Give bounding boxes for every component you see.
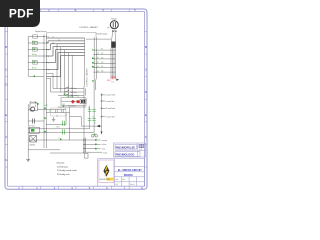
- bundle wire numbers: [52, 37, 60, 45]
- svg-text:B: B: [145, 45, 147, 49]
- handle lamp circle: [110, 20, 118, 32]
- wire rail 4: [28, 139, 84, 141]
- net arrow down: [101, 132, 103, 135]
- label signal lamps: [35, 31, 46, 33]
- schematic wiring: main drawing: [28, 32, 115, 152]
- wire number labels XT2: [101, 49, 104, 73]
- terminal strip XT2: [93, 37, 97, 79]
- wire drop 2: [60, 47, 62, 92]
- label control cabinet: [79, 26, 99, 29]
- wire strip to plug row 4: [96, 62, 115, 64]
- arrow left: [96, 125, 101, 128]
- wire pump feed: [37, 109, 66, 111]
- cabinet outline: [47, 32, 96, 37]
- svg-text:gn: gn: [97, 62, 99, 64]
- terminal numbers right of strip XT1: [48, 37, 49, 72]
- title block main: [98, 159, 145, 187]
- wire lamp row 1: [28, 36, 44, 38]
- green squares ladder: [44, 108, 61, 141]
- svg-text:gy: gy: [97, 70, 99, 72]
- svg-text:1:4: 1:4: [112, 81, 114, 83]
- contact pair K2: [63, 121, 65, 135]
- svg-text:ye: ye: [97, 66, 99, 68]
- wire drop 1: [56, 44, 58, 89]
- frame outer border: [5, 9, 147, 189]
- frame zone ticks: [5, 9, 147, 189]
- svg-text:KM1: KM1: [45, 105, 48, 107]
- svg-text:Handle lamps: Handle lamps: [97, 34, 108, 36]
- green dots left of XT2: [92, 49, 94, 67]
- svg-text:1.2: 1.2: [58, 39, 60, 41]
- wire handle stem: [112, 30, 116, 42]
- pump unit M1: [30, 102, 39, 114]
- wire cabinet row 7: [46, 55, 84, 76]
- svg-text:CONTROL CABINET: CONTROL CABINET: [79, 26, 99, 29]
- wire cabinet vertical bus: [84, 38, 86, 86]
- svg-text:Indicator:: Indicator:: [57, 161, 66, 164]
- svg-text:M1 pump: M1 pump: [30, 102, 37, 104]
- label control cabinet vertical: [86, 67, 89, 87]
- wire rail 3: [28, 132, 94, 134]
- title upper text 1: [116, 146, 136, 149]
- wire branch vertical: [69, 107, 71, 140]
- svg-text:E: E: [6, 113, 8, 117]
- svg-text:230V: 230V: [30, 111, 34, 113]
- wire cabinet row 6: [46, 53, 84, 70]
- wire strip to plug row 2: [96, 54, 115, 56]
- strip XT3 green dots: [95, 139, 97, 149]
- wire lamp row 5: [28, 62, 44, 64]
- title upper text 2: [116, 153, 135, 156]
- connector XP1: [111, 42, 116, 48]
- wire cabinet row 1: [46, 37, 84, 39]
- svg-text:S4: S4: [56, 116, 58, 118]
- wire elbow: [65, 113, 67, 125]
- logo text: [100, 179, 111, 181]
- svg-text:1:4: 1:4: [139, 149, 142, 151]
- svg-text:103: 103: [101, 57, 104, 59]
- bottom terminal strip XT3: [83, 138, 86, 153]
- wire lamp row 4: [28, 55, 44, 57]
- relay contact K4: [88, 119, 96, 121]
- svg-text:T1: T1: [58, 138, 60, 140]
- wire drop 5: [71, 55, 73, 97]
- wire rail 6: [50, 152, 84, 154]
- projection symbols: [115, 144, 143, 150]
- wire handle feed: [86, 38, 111, 40]
- wire ladder verticals: [44, 78, 46, 148]
- svg-text:2) Ready tested mode: 2) Ready tested mode: [57, 169, 78, 172]
- svg-text:C1: C1: [77, 96, 79, 98]
- wire strip to plug row 3: [96, 58, 115, 60]
- relay green labels: [88, 107, 96, 124]
- wire cabinet row 5: [46, 50, 84, 63]
- ground chassis: [52, 117, 55, 122]
- svg-text:PDF: PDF: [9, 7, 34, 21]
- svg-text:C: C: [5, 68, 7, 72]
- switch green dot: [64, 80, 94, 95]
- contact pair K1: [33, 119, 35, 124]
- lower ladder wiring: [28, 78, 96, 158]
- svg-text:wh: wh: [97, 53, 99, 55]
- wire strip to plug row 5: [96, 67, 115, 69]
- transformer T1: [30, 136, 37, 147]
- svg-text:Signal lamps: Signal lamps: [35, 31, 46, 33]
- wire switch rows: [51, 88, 85, 95]
- svg-text:102: 102: [101, 53, 104, 55]
- plug XS1 red: [107, 77, 119, 83]
- frame zone numbers: [5, 8, 147, 190]
- svg-text:3) Ready auto: 3) Ready auto: [57, 173, 70, 176]
- wire cabinet row 3: [46, 44, 84, 50]
- svg-text:3: 3: [48, 50, 49, 52]
- wire rail 1: [46, 112, 69, 114]
- lamp green dots: [34, 42, 35, 77]
- plug box bottom: [85, 153, 89, 158]
- title main text 1: [118, 169, 142, 172]
- wire left feeder vertical: [27, 37, 29, 77]
- label XP: [107, 28, 109, 30]
- wire rail 2: [28, 128, 89, 130]
- net label green dots: [101, 94, 102, 117]
- wire right bus verticals: [84, 86, 85, 153]
- svg-text:101: 101: [101, 49, 104, 51]
- svg-text:SM1500: SM1500: [124, 174, 134, 177]
- relay contacts mid green: [56, 110, 64, 113]
- svg-text:PNEUMOLOGIC: PNEUMOLOGIC: [116, 153, 135, 156]
- svg-text:Chk: Chk: [115, 184, 118, 186]
- wire cabinet row 2: [46, 41, 84, 43]
- net branch ticks: [102, 95, 106, 117]
- wire mid verticals: [101, 93, 103, 134]
- svg-text:XP: XP: [107, 28, 109, 30]
- ground PE: [26, 158, 30, 162]
- lamp row labels: [32, 40, 37, 70]
- wire drop 4: [67, 53, 69, 98]
- logo cell: [99, 160, 114, 183]
- aux row: [58, 105, 86, 107]
- svg-text:Sign: Sign: [122, 179, 125, 181]
- wire left drop: [28, 104, 30, 158]
- wire rail 5: [28, 149, 60, 151]
- wire rail 2b: [46, 124, 66, 126]
- wire drop 3: [64, 50, 66, 96]
- psu box G1: [61, 96, 86, 106]
- title block upper box: [114, 143, 146, 157]
- wire lamp row 6: [28, 69, 44, 71]
- label handle lamps: [97, 34, 108, 36]
- title main text 2: [124, 174, 134, 177]
- svg-text:1.1: 1.1: [52, 37, 54, 39]
- logo flame: [103, 164, 109, 177]
- wire strip to plug row 1: [96, 49, 115, 51]
- green labels ladder: [45, 104, 65, 140]
- svg-text:K3: K3: [88, 107, 90, 109]
- wire lamp row 3: [28, 49, 44, 51]
- svg-text:SMOKETECH: SMOKETECH: [100, 179, 111, 181]
- svg-text:C: C: [145, 68, 147, 72]
- svg-text:2: 2: [48, 43, 49, 45]
- svg-text:D: D: [145, 90, 147, 94]
- svg-text:104: 104: [101, 62, 104, 64]
- svg-text:K5: K5: [94, 122, 96, 124]
- wire elbow branch: [70, 117, 97, 126]
- wire plug verticals: [111, 48, 116, 77]
- switch labels: [71, 87, 78, 97]
- relay contact K3: [88, 110, 96, 112]
- label handle: [111, 19, 117, 21]
- heater box E1: [29, 125, 39, 134]
- svg-text:105: 105: [101, 66, 104, 68]
- svg-text:K4: K4: [93, 116, 95, 118]
- legend text: [57, 161, 78, 176]
- title small cells text: [115, 178, 135, 186]
- svg-text:G1 24Vdc: G1 24Vdc: [67, 96, 74, 98]
- scale text: [139, 149, 142, 151]
- wire L feed 2: [46, 78, 50, 92]
- wire strip XT3 rows: [86, 140, 102, 152]
- sensor green dot: [94, 134, 95, 135]
- wire strip to plug row 6: [96, 71, 115, 73]
- svg-text:EL: SM1500 CIRCUIT: EL: SM1500 CIRCUIT: [118, 169, 142, 172]
- svg-text:1.3: 1.3: [52, 42, 54, 44]
- svg-text:1) Red lamp: 1) Red lamp: [57, 166, 69, 168]
- svg-text:XT2 24V dc: XT2 24V dc: [68, 105, 76, 107]
- wire L feed 1: [46, 73, 53, 88]
- svg-text:Handle: Handle: [111, 19, 117, 21]
- sensor circles: [92, 135, 98, 138]
- wire lamp row 2: [28, 42, 44, 44]
- svg-text:G: G: [5, 158, 7, 162]
- svg-text:4: 4: [48, 56, 49, 58]
- green wire labels at strip XT2: [97, 53, 99, 73]
- lamp contact boxes: [33, 35, 38, 64]
- wire strip drop pair: [94, 79, 96, 105]
- svg-text:6: 6: [48, 70, 49, 72]
- strip XT3 labels: [102, 139, 108, 155]
- net labels mid: [106, 94, 116, 119]
- PDF badge: [0, 0, 40, 27]
- relay box aux: [51, 108, 67, 116]
- svg-text:K2: K2: [50, 111, 52, 113]
- svg-text:D: D: [5, 83, 7, 87]
- svg-text:QF2: QF2: [57, 127, 60, 129]
- wire lamp row 7: [28, 76, 44, 78]
- logo yellow strip: [106, 178, 113, 181]
- svg-text:5: 5: [48, 63, 49, 65]
- wire cabinet row 4: [46, 47, 84, 56]
- svg-text:B: B: [6, 45, 8, 49]
- wire contact row: [28, 120, 44, 122]
- svg-text:HL3 ye: HL3 ye: [32, 54, 37, 56]
- terminal strip XT1: [43, 35, 47, 79]
- svg-text:PNEUMOPULSE: PNEUMOPULSE: [116, 146, 136, 149]
- svg-text:1: 1: [48, 37, 49, 39]
- svg-text:106: 106: [101, 71, 104, 73]
- svg-text:bn: bn: [97, 57, 99, 59]
- svg-text:CONTROL CABINET: CONTROL CABINET: [86, 67, 89, 87]
- wire psu verticals: [90, 106, 95, 133]
- svg-text:400V/24: 400V/24: [30, 145, 36, 147]
- svg-text:E: E: [145, 113, 147, 117]
- switch symbols below cabinet: [65, 87, 69, 96]
